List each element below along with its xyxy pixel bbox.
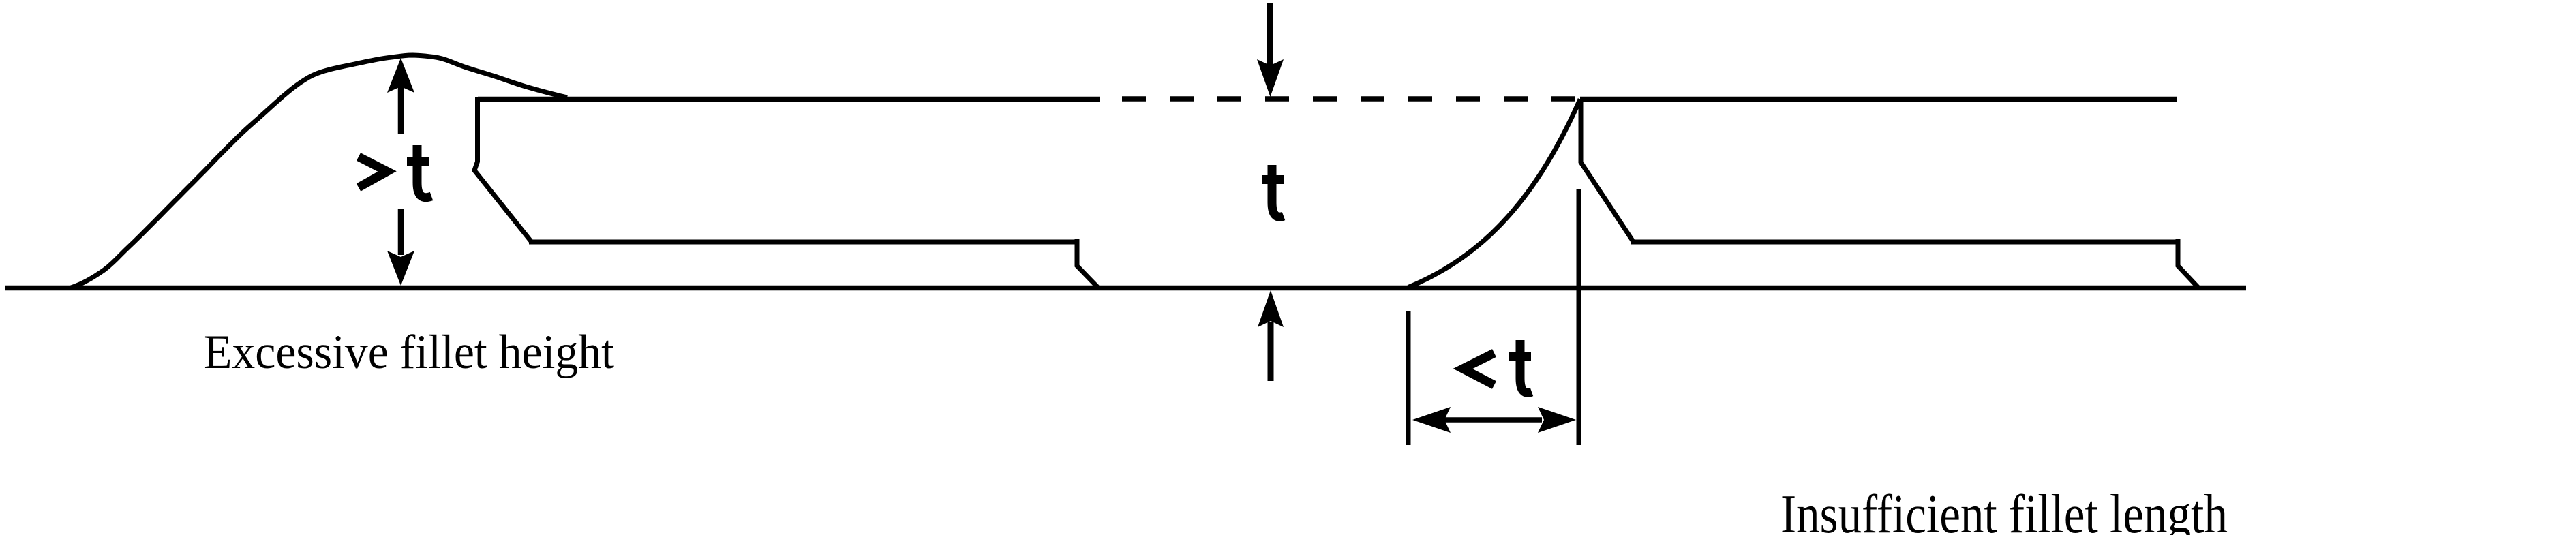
label greater-than sign xyxy=(359,157,387,187)
component 2 top edge xyxy=(1580,97,2177,102)
label t (excessive height) xyxy=(407,145,431,198)
label less-than sign xyxy=(1463,353,1494,385)
dimension arrow down (fillet height), lower head xyxy=(398,209,404,255)
component 1 top edge xyxy=(478,97,1100,102)
label t (component thickness) xyxy=(1262,165,1284,217)
excessive solder fillet bell curve xyxy=(71,55,567,288)
component 2 right end step to pad xyxy=(2178,239,2198,288)
svg-text:Excessive fillet height: Excessive fillet height xyxy=(204,326,614,379)
fillet length left extension tick xyxy=(1406,311,1411,445)
pcb pad baseline xyxy=(5,286,2246,291)
svg-text:Insufficient fillet length: Insufficient fillet length xyxy=(1781,483,2228,535)
component 1 right end step to pad xyxy=(1077,239,1097,287)
dimension arrow up (fillet height), upper head xyxy=(398,87,404,134)
label t (fillet length) xyxy=(1509,340,1532,393)
fillet length double arrow shaft xyxy=(1444,417,1542,423)
component 1 bottom edge xyxy=(529,240,1075,245)
component 2 bottom edge xyxy=(1631,240,2176,245)
component seating plane dashed line xyxy=(1122,96,1580,102)
fillet length right extension tick xyxy=(1577,189,1581,445)
top datum arrow pointing down xyxy=(1267,3,1273,67)
fillet length left arrowhead xyxy=(1412,407,1451,433)
fillet length right arrowhead xyxy=(1538,407,1576,433)
component 2 left edge and chamfer xyxy=(1581,99,1633,241)
bottom datum arrow pointing up xyxy=(1268,322,1274,381)
component 1 left edge and chamfer xyxy=(474,97,531,241)
insufficient solder fillet curve xyxy=(1408,100,1580,288)
